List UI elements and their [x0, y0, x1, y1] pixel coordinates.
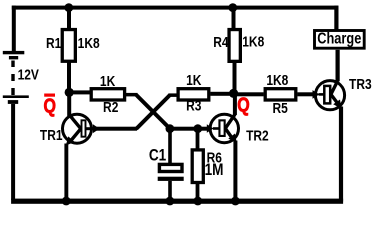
- svg-text:TR1: TR1: [40, 127, 63, 144]
- svg-text:R5: R5: [272, 100, 288, 117]
- svg-text:R1: R1: [46, 35, 62, 52]
- svg-text:1K: 1K: [100, 73, 116, 90]
- svg-text:R4: R4: [213, 34, 229, 51]
- svg-text:1K8: 1K8: [242, 33, 264, 50]
- svg-text:Q: Q: [237, 94, 249, 116]
- svg-text:R3: R3: [186, 97, 202, 114]
- svg-text:Q: Q: [44, 95, 56, 117]
- svg-text:1K8: 1K8: [266, 72, 288, 89]
- svg-text:1M: 1M: [205, 161, 224, 180]
- svg-text:1K8: 1K8: [78, 35, 100, 52]
- svg-text:12V: 12V: [18, 66, 39, 83]
- svg-text:R2: R2: [103, 99, 119, 116]
- svg-text:1K: 1K: [186, 72, 202, 89]
- svg-text:Charge: Charge: [317, 30, 361, 48]
- svg-text:C1: C1: [149, 146, 167, 165]
- svg-text:TR2: TR2: [246, 127, 269, 144]
- svg-text:TR3: TR3: [349, 76, 372, 93]
